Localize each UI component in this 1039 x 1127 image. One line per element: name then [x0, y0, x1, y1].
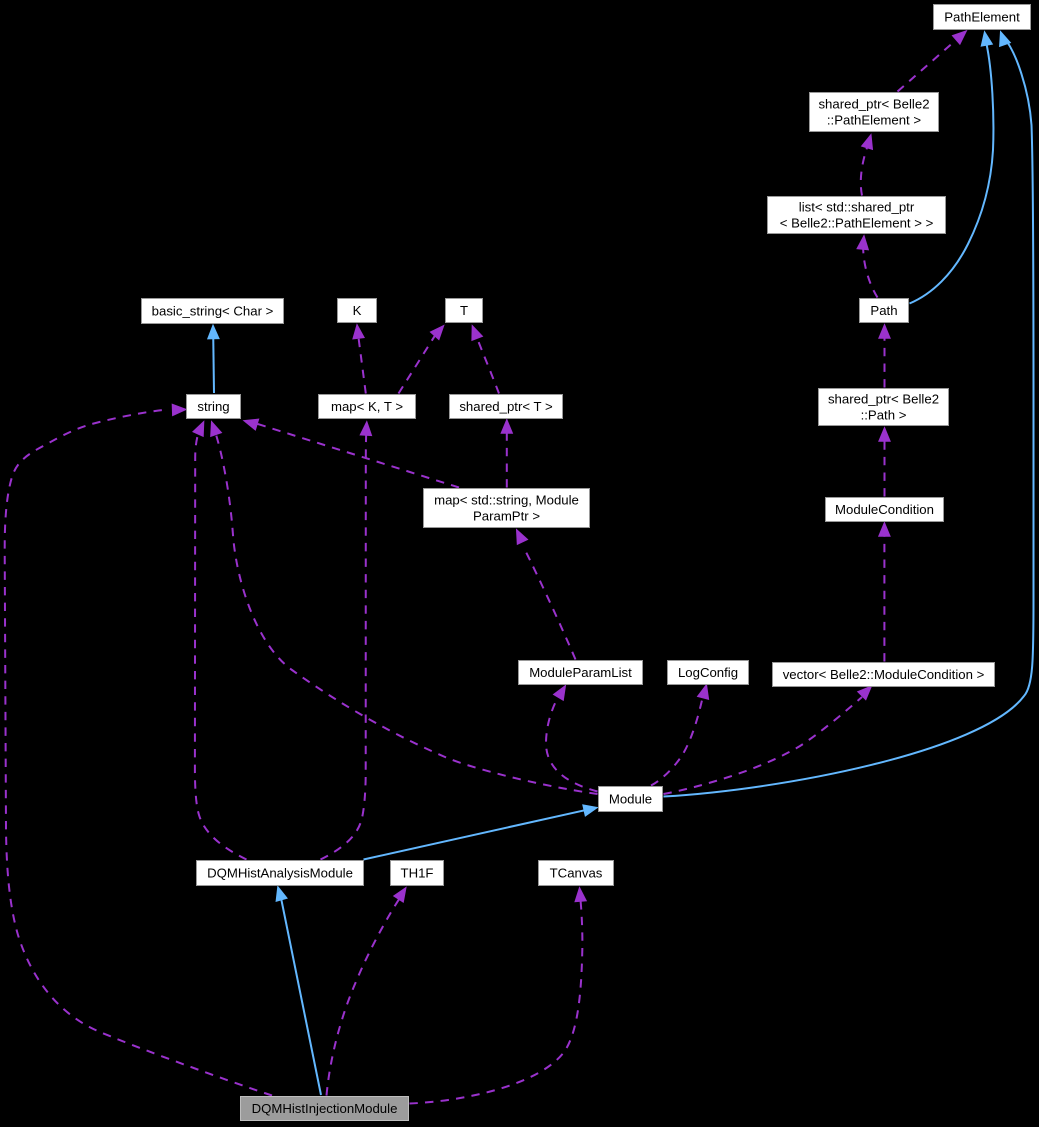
- svg-text:PathElement: PathElement: [944, 10, 1020, 25]
- svg-text:ModuleParamList: ModuleParamList: [529, 665, 632, 680]
- svg-text:T: T: [460, 303, 468, 318]
- svg-text:LogConfig: LogConfig: [678, 665, 738, 680]
- svg-text:TH1F: TH1F: [401, 866, 434, 881]
- svg-text:string: string: [197, 399, 229, 414]
- svg-text:K: K: [353, 303, 362, 318]
- svg-text:DQMHistAnalysisModule: DQMHistAnalysisModule: [207, 866, 353, 881]
- svg-text:shared_ptr< Belle2: shared_ptr< Belle2: [828, 392, 939, 407]
- svg-text:ModuleCondition: ModuleCondition: [835, 502, 934, 517]
- svg-text:::Path >: ::Path >: [861, 408, 907, 423]
- svg-text:< Belle2::PathElement > >: < Belle2::PathElement > >: [780, 216, 934, 231]
- svg-text:shared_ptr< T >: shared_ptr< T >: [459, 399, 553, 414]
- svg-text:Module: Module: [609, 792, 652, 807]
- svg-text:map< K, T >: map< K, T >: [331, 399, 403, 414]
- svg-text:ParamPtr >: ParamPtr >: [473, 509, 540, 524]
- svg-text:shared_ptr< Belle2: shared_ptr< Belle2: [818, 97, 929, 112]
- svg-text:basic_string< Char >: basic_string< Char >: [152, 304, 274, 319]
- svg-text:map< std::string, Module: map< std::string, Module: [434, 493, 579, 508]
- svg-text:TCanvas: TCanvas: [550, 866, 603, 881]
- svg-text:vector< Belle2::ModuleConditio: vector< Belle2::ModuleCondition >: [783, 667, 985, 682]
- svg-text:::PathElement >: ::PathElement >: [827, 113, 921, 128]
- svg-text:Path: Path: [870, 303, 897, 318]
- svg-text:list< std::shared_ptr: list< std::shared_ptr: [799, 200, 915, 215]
- svg-text:DQMHistInjectionModule: DQMHistInjectionModule: [252, 1101, 398, 1116]
